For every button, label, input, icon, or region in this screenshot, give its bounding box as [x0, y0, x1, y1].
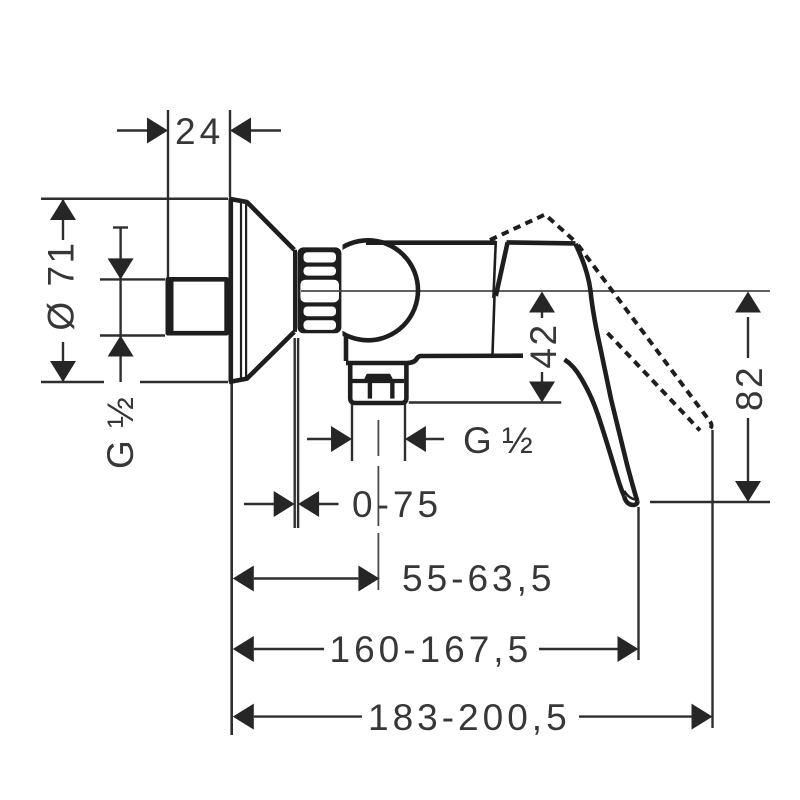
svg-text:G ½: G ½ — [463, 420, 533, 461]
svg-text:G ½: G ½ — [100, 396, 141, 469]
svg-text:0-75: 0-75 — [352, 484, 442, 525]
svg-text:24: 24 — [175, 111, 224, 152]
svg-text:55-63,5: 55-63,5 — [402, 558, 556, 599]
svg-text:183-200,5: 183-200,5 — [368, 697, 571, 738]
svg-text:160-167,5: 160-167,5 — [330, 629, 533, 670]
svg-text:82: 82 — [729, 365, 770, 411]
svg-text:Ø 71: Ø 71 — [40, 240, 81, 330]
svg-text:42: 42 — [523, 322, 564, 368]
